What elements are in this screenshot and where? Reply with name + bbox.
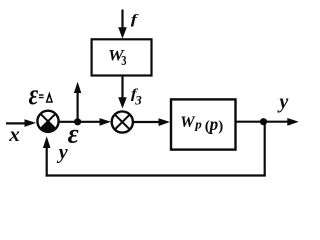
wire node A up (epsilon takeoff) xyxy=(76,92,78,122)
svg-text:ε: ε xyxy=(68,118,79,148)
node B (output takeoff dot) xyxy=(260,118,267,125)
summing junction U1 (comparator, bottom sector filled) xyxy=(37,111,58,132)
svg-text:f: f xyxy=(131,11,139,27)
block Wp xyxy=(171,99,236,149)
arrow f3 into U2 xyxy=(118,97,127,108)
label equals xyxy=(39,94,44,98)
wire Wp output xyxy=(236,121,288,123)
wire W3 to U2 (f3) xyxy=(121,76,123,99)
arrow into summing junction U2 xyxy=(100,118,112,126)
arrow output y xyxy=(287,118,299,126)
wire feedback down from node B xyxy=(264,122,266,176)
svg-text:3: 3 xyxy=(121,52,126,68)
svg-text:x: x xyxy=(8,122,20,146)
arrow up epsilon takeoff xyxy=(74,82,81,93)
node A (takeoff dot) xyxy=(74,118,81,125)
summing junction U2 xyxy=(112,111,133,132)
wire f input xyxy=(121,10,123,29)
wire feedback up to U1 xyxy=(46,147,48,177)
arrow feedback into U1 xyxy=(43,136,51,148)
wire feedback bottom xyxy=(46,174,266,176)
svg-text:p: p xyxy=(194,117,202,132)
svg-text:W: W xyxy=(180,114,196,131)
svg-text:): ) xyxy=(218,118,223,134)
svg-text:ε: ε xyxy=(29,77,39,110)
arrow f into block W3 xyxy=(118,27,127,38)
wire U1 to node A xyxy=(59,121,78,123)
svg-text:p: p xyxy=(208,113,219,134)
arrow into summing junction U1 xyxy=(25,119,37,127)
wire x input xyxy=(6,122,25,124)
label Delta (drawn bold triangle) xyxy=(46,91,54,102)
svg-text:y: y xyxy=(57,141,68,163)
arrow into block Wp xyxy=(159,118,171,126)
svg-text:3: 3 xyxy=(134,93,142,108)
wire node A to summing junction U2 xyxy=(78,121,101,123)
wire U2 to block Wp xyxy=(133,121,159,123)
block W3 xyxy=(92,39,152,75)
svg-text:y: y xyxy=(277,91,288,113)
